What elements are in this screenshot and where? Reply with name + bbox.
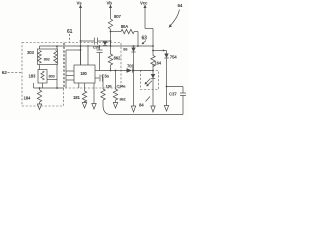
- svg-text:Vcc: Vcc: [140, 0, 148, 5]
- svg-text:803: 803: [49, 74, 56, 79]
- svg-text:862: 862: [114, 55, 121, 60]
- svg-text:63: 63: [142, 36, 148, 42]
- svg-text:186: 186: [106, 84, 113, 89]
- svg-text:180: 180: [80, 71, 87, 76]
- svg-text:80A: 80A: [121, 24, 129, 29]
- svg-text:64: 64: [178, 3, 183, 8]
- svg-text:61: 61: [67, 29, 73, 35]
- svg-text:701: 701: [127, 64, 134, 69]
- svg-text:183: 183: [29, 74, 36, 79]
- svg-text:C3a: C3a: [102, 73, 110, 78]
- svg-text:Vs: Vs: [77, 0, 83, 5]
- svg-text:84: 84: [139, 103, 144, 108]
- svg-text:C39: C39: [93, 45, 101, 50]
- svg-text:754: 754: [170, 55, 177, 60]
- svg-text:62: 62: [2, 70, 7, 76]
- svg-text:807: 807: [114, 14, 121, 19]
- svg-text:Vb: Vb: [107, 0, 113, 5]
- svg-text:164: 164: [155, 61, 162, 66]
- svg-text:C34a: C34a: [117, 84, 127, 89]
- svg-text:303: 303: [27, 50, 34, 55]
- svg-text:184: 184: [24, 96, 31, 101]
- svg-text:802: 802: [44, 56, 51, 61]
- svg-text:C37: C37: [169, 92, 177, 97]
- svg-text:862: 862: [120, 97, 127, 102]
- svg-text:181: 181: [73, 95, 80, 100]
